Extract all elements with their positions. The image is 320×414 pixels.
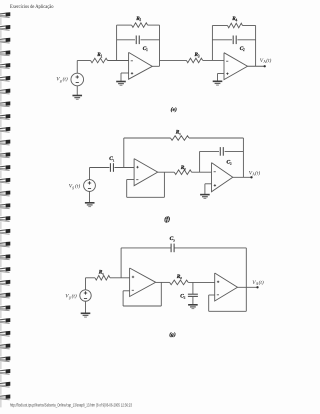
svg-text:(t): (t) bbox=[255, 169, 260, 176]
svg-text:(t): (t) bbox=[259, 279, 264, 286]
svg-text:g: g bbox=[72, 186, 74, 190]
svg-text:1: 1 bbox=[179, 132, 181, 136]
svg-text:1: 1 bbox=[113, 158, 115, 162]
svg-text:1: 1 bbox=[146, 48, 148, 52]
svg-text:1: 1 bbox=[101, 54, 103, 58]
svg-text:(t): (t) bbox=[63, 76, 68, 83]
svg-text:(g): (g) bbox=[169, 331, 176, 338]
svg-text:2: 2 bbox=[184, 296, 186, 300]
svg-text:4: 4 bbox=[236, 18, 238, 22]
svg-text:(f): (f) bbox=[164, 216, 170, 223]
svg-text:(t): (t) bbox=[266, 57, 271, 64]
svg-text:3: 3 bbox=[198, 54, 200, 58]
svg-text:2: 2 bbox=[180, 276, 182, 280]
svg-text:1: 1 bbox=[102, 272, 104, 276]
svg-text:(e): (e) bbox=[171, 106, 177, 113]
svg-text:2: 2 bbox=[139, 18, 141, 22]
svg-text:(t): (t) bbox=[72, 292, 77, 299]
svg-text:g: g bbox=[69, 296, 71, 300]
svg-text:Exercícios de Aplicação: Exercícios de Aplicação bbox=[10, 5, 54, 10]
svg-text:http://ltodi.est.ips.pt/lveris: http://ltodi.est.ips.pt/lveriss/Sebenta_… bbox=[10, 403, 133, 408]
svg-text:(t): (t) bbox=[75, 182, 80, 189]
svg-text:2: 2 bbox=[184, 167, 186, 171]
svg-text:3: 3 bbox=[173, 238, 175, 242]
svg-text:2: 2 bbox=[230, 162, 232, 166]
svg-text:2: 2 bbox=[243, 48, 245, 52]
svg-text:g: g bbox=[60, 79, 62, 83]
